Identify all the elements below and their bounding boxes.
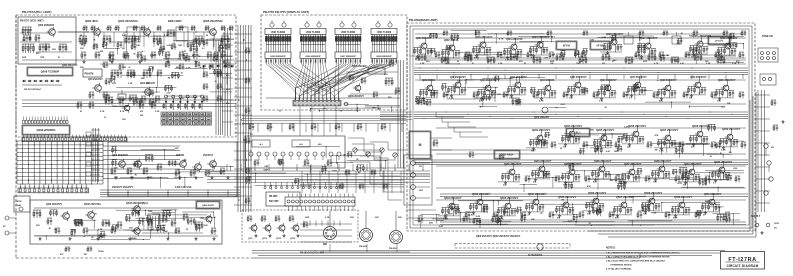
emitter drop wire QIII <box>458 90 460 95</box>
transistor Q701 <box>249 223 258 233</box>
hookup wires band <box>104 36 234 62</box>
bias network Q207 <box>658 140 666 147</box>
photo unit grounds <box>254 234 257 237</box>
collector wire QI06 <box>614 33 616 37</box>
svg-text:2.2K: 2.2K <box>490 91 495 93</box>
svg-text:Q2I4 2SC372Y: Q2I4 2SC372Y <box>534 159 552 163</box>
emitter drop wire Q2I9 <box>692 177 694 182</box>
diode matrix label grid <box>161 112 167 116</box>
IC pin fans U605 <box>265 45 291 65</box>
svg-text:Q606 2SC372Y: Q606 2SC372Y <box>348 96 365 98</box>
row C coils <box>551 142 556 149</box>
collector wire QI09 <box>728 37 730 41</box>
IC Q230 AN214 <box>494 150 520 159</box>
emitter drop wire Q506 <box>596 206 598 211</box>
collector wire Q503 <box>508 197 510 201</box>
IF crystal filter XF-10A <box>556 41 577 50</box>
row E coils <box>465 212 470 219</box>
bias network QI09 <box>718 48 726 55</box>
bottom bus step corner <box>639 253 641 258</box>
display collector bus <box>266 97 400 99</box>
row A long wires <box>415 34 746 58</box>
row A top caps <box>443 31 448 36</box>
transistor Q003 <box>141 27 150 38</box>
component clusters band <box>561 51 566 57</box>
row D long wires <box>436 165 746 167</box>
row C long wires <box>436 127 746 129</box>
interconnect junctions <box>243 39 244 40</box>
main bus band y160 <box>414 160 748 164</box>
IC pin fans U607 <box>335 45 361 65</box>
contact row upper <box>264 182 343 189</box>
counter IC U607 M5D823P <box>335 52 361 59</box>
svg-text:Q2I9 2SD235Y: Q2I9 2SD235Y <box>534 117 550 119</box>
emitter drop wire QI20 <box>726 93 728 98</box>
svg-text:47K: 47K <box>519 60 523 63</box>
bias network Q507 <box>614 207 622 214</box>
interconnect corridor stubs <box>234 33 252 35</box>
svg-text:FROM: FROM <box>16 201 22 203</box>
svg-text:33K: 33K <box>587 214 591 216</box>
left feed column strip <box>93 128 98 182</box>
svg-text:I5K: I5K <box>616 175 620 177</box>
svg-text:QI04 2SCI730: QI04 2SCI730 <box>506 37 523 41</box>
IF transformer T101 <box>624 36 633 44</box>
component clusters band <box>105 79 110 85</box>
svg-text:10K: 10K <box>178 45 182 47</box>
collector wire QI0I <box>424 37 426 41</box>
svg-text:QI0I 3SK40: QI0I 3SK40 <box>416 36 430 40</box>
collector wire QI07 <box>648 37 650 41</box>
svg-text:4.7K: 4.7K <box>661 88 666 91</box>
collector wire Q220 <box>722 161 724 165</box>
display right resistor banks <box>385 78 393 86</box>
connector strip display bottom <box>293 98 341 106</box>
PLL right vertical wires <box>216 40 223 135</box>
bias network QI20 <box>716 90 724 97</box>
jack PH right <box>764 144 768 148</box>
collector wire Q507 <box>624 196 626 200</box>
transistor Q702 <box>263 223 272 233</box>
control wiring matrix <box>16 140 103 184</box>
svg-text:0.I: 0.I <box>151 93 154 95</box>
switch sub-box A-1 <box>252 140 270 147</box>
wire VCO output <box>58 31 88 33</box>
title block box <box>721 252 765 270</box>
collector wire QII8 <box>668 79 670 83</box>
svg-text:4.7K: 4.7K <box>677 182 682 185</box>
right margin ground 1 <box>781 120 784 123</box>
emitter drop wire QII9 <box>698 90 700 95</box>
PLL top caps row <box>83 26 88 31</box>
svg-text:I5K: I5K <box>140 115 144 117</box>
bias network QII0 <box>420 90 428 97</box>
bottom interconnect bus wires <box>252 250 725 252</box>
collector wire Q505 <box>566 196 568 200</box>
hookup wires band <box>246 146 388 190</box>
svg-text:10K: 10K <box>643 214 647 216</box>
svg-text:10K: 10K <box>653 182 657 184</box>
svg-text:33K: 33K <box>80 48 84 50</box>
matrix-strip link wires <box>19 184 21 188</box>
emitter drop wire Q2I8 <box>662 174 664 179</box>
svg-text:I5K: I5K <box>201 218 205 220</box>
svg-text:.0I: .0I <box>193 169 196 171</box>
svg-text:2.2K: 2.2K <box>602 37 607 39</box>
bias networks Q301 Q302 <box>111 168 116 175</box>
svg-text:U604 TLR362: U604 TLR362 <box>377 31 392 34</box>
bottom bus risers with dots <box>107 190 109 197</box>
below jack panel wires <box>406 209 436 211</box>
svg-text:Q405 BUZ0: Q405 BUZ0 <box>202 204 214 207</box>
socket area extra wires <box>320 251 410 253</box>
svg-text:2SC372Y: 2SC372Y <box>203 154 214 157</box>
bias network Q50I <box>442 208 450 215</box>
bias network Q204 <box>562 136 570 143</box>
mixer T001 coil <box>167 30 175 37</box>
collector wire QII0 <box>430 79 432 83</box>
svg-text:2.2K: 2.2K <box>155 111 160 113</box>
hookup wires band <box>73 209 214 240</box>
hookup wires band <box>458 196 740 226</box>
svg-text:33K: 33K <box>204 225 208 227</box>
collector wire Q208 <box>700 125 702 129</box>
IC Q008 top pin strip <box>23 117 69 124</box>
emitter drop wire QII0 <box>430 93 432 98</box>
transistor Q303 <box>177 159 186 170</box>
svg-text:47K: 47K <box>418 101 422 104</box>
speaker connector <box>760 74 776 85</box>
bias network Q220 <box>712 172 720 179</box>
display driver IC U602 TLR362 <box>300 29 326 35</box>
svg-text:33K: 33K <box>36 225 40 227</box>
socket J401 MIC <box>324 227 337 240</box>
pots right of switch box <box>353 148 357 154</box>
row E long wires <box>436 199 746 201</box>
display driver IC U603 TLR362 <box>335 29 361 35</box>
svg-text:I5K: I5K <box>727 103 731 105</box>
svg-text:QI03 2SC372Y: QI03 2SC372Y <box>475 35 493 39</box>
svg-text:I5K: I5K <box>453 87 457 89</box>
svg-text:47K: 47K <box>226 88 230 91</box>
emitter drop wire Q2I3 <box>512 177 514 182</box>
collector wire QIII <box>458 76 460 80</box>
emitter drop wire QII5 <box>578 90 580 95</box>
collector wire Q2I5 <box>572 163 574 167</box>
bias network Q2I8 <box>652 171 660 178</box>
svg-text:0.I: 0.I <box>629 98 632 100</box>
emitter drop wire QI05 <box>540 50 542 55</box>
diode string D003-D009 <box>22 80 26 82</box>
svg-text:Q5I0 2SC372Y: Q5I0 2SC372Y <box>704 192 722 196</box>
AF interstage network <box>75 220 83 227</box>
emitter drop wire QI03 <box>483 50 485 55</box>
svg-text:10K: 10K <box>614 151 618 153</box>
svg-text:2.2K: 2.2K <box>220 47 225 49</box>
emitter drop wire Q5I0 <box>712 207 714 212</box>
svg-text:QI05 2SC372Y: QI05 2SC372Y <box>532 35 550 39</box>
transistor Q703 <box>277 223 286 233</box>
svg-text:I00P: I00P <box>673 218 678 220</box>
svg-text:3.3K: 3.3K <box>325 217 330 219</box>
svg-text:I00P: I00P <box>183 160 188 162</box>
svg-text:.0I: .0I <box>340 111 343 113</box>
svg-text:Q403 2SCI096(B)x2: Q403 2SCI096(B)x2 <box>126 202 148 205</box>
collector wire QI04 <box>514 38 516 42</box>
bias network Q5I0 <box>702 204 710 211</box>
emitter drop wire QII7 <box>638 90 640 95</box>
display driver IC U601 TLR362 <box>265 29 291 35</box>
feed column boxes <box>86 132 91 136</box>
svg-text:33K: 33K <box>717 101 721 103</box>
svg-text:10K: 10K <box>136 45 140 47</box>
svg-text:CIRCUIT DIAGRAM: CIRCUIT DIAGRAM <box>726 264 758 268</box>
svg-text:10K: 10K <box>108 55 112 57</box>
collector wire Q2I9 <box>692 163 694 167</box>
collector wire Q2I4 <box>542 160 544 164</box>
bias network Q504 <box>526 204 534 211</box>
svg-text:4.7K: 4.7K <box>499 37 504 40</box>
crisscross wiring to main unit <box>348 138 406 200</box>
svg-text:4.7K: 4.7K <box>539 100 544 103</box>
hookup wires band <box>120 149 234 188</box>
svg-text:I00P: I00P <box>305 217 310 219</box>
AF mid caps <box>55 228 60 234</box>
emitter drop wire QI07 <box>648 51 650 56</box>
svg-text:PH: PH <box>419 166 422 168</box>
audio sub-box border 3 <box>608 92 756 237</box>
RF top row collector bus <box>415 37 746 39</box>
emitter drop wire QI06 <box>614 47 616 52</box>
display bus fan wiring <box>266 64 396 100</box>
svg-text:10K: 10K <box>674 61 678 63</box>
collector wire Q206 <box>636 125 638 129</box>
svg-text:0I 2SA495Y/6: 0I 2SA495Y/6 <box>528 254 543 257</box>
PLL near-bus clusters <box>77 102 82 109</box>
collector wire QI20 <box>726 79 728 83</box>
transistor Q001 <box>46 27 55 38</box>
corridor diode row 2 <box>202 65 206 67</box>
display unit dashed box <box>261 15 407 110</box>
svg-text:IM: IM <box>168 78 171 80</box>
svg-text:Q0I2 2SC372Y: Q0I2 2SC372Y <box>140 83 156 85</box>
emitter drop wire QII8 <box>668 93 670 98</box>
middle interlink drops <box>245 123 247 132</box>
svg-text:Q50I 2SC372Y: Q50I 2SC372Y <box>444 196 462 200</box>
programmable divider diodes D010-D015 <box>165 95 168 98</box>
Q005 network <box>195 36 203 44</box>
jack right 4 <box>764 191 768 195</box>
svg-text:I00P: I00P <box>550 61 555 63</box>
Q012 emitter network <box>141 96 146 103</box>
svg-text:3.3K: 3.3K <box>589 40 594 42</box>
svg-text:Q40I 2SC372Y: Q40I 2SC372Y <box>46 203 62 206</box>
PLL band clusters y63-92 <box>165 62 170 68</box>
bias network Q209 <box>720 139 728 146</box>
svg-text:2.ALL CAPACITORS ARE IN µF UNL: 2.ALL CAPACITORS ARE IN µF UNLESS OTHERW… <box>606 256 671 259</box>
component clusters band <box>492 217 500 223</box>
right margin vertical wires <box>758 90 764 212</box>
meter box M501 <box>409 131 431 159</box>
svg-text:.0I: .0I <box>365 154 368 156</box>
svg-text:4.7K: 4.7K <box>332 169 337 172</box>
bias network Q206 <box>626 136 634 143</box>
svg-text:Q2I8 2SC372Y: Q2I8 2SC372Y <box>654 159 672 163</box>
svg-text:2.2K: 2.2K <box>718 53 723 55</box>
svg-text:XF-I0B: XF-I0B <box>596 46 604 48</box>
collector wire QI05 <box>540 36 542 40</box>
emitter drop wire Q207 <box>668 143 670 148</box>
photo unit extra wires <box>300 223 352 225</box>
svg-text:QI07 2SC372Y: QI07 2SC372Y <box>640 36 658 40</box>
svg-text:I00P: I00P <box>264 169 269 171</box>
bias network QI02 <box>442 50 450 57</box>
emitter resistors Q303-Q305 <box>175 170 180 177</box>
emitter drop wire Q509 <box>682 210 684 215</box>
audio sub-box border 2 <box>598 96 753 234</box>
interconnect corridor clusters <box>245 48 250 54</box>
svg-text:U608 M5D823P: U608 M5D823P <box>376 56 392 58</box>
collector wire Q5I0 <box>712 193 714 197</box>
AF input network <box>33 210 41 218</box>
bias network Q2I5 <box>562 174 570 181</box>
svg-text:47K: 47K <box>384 73 388 76</box>
AF grounds <box>38 237 41 240</box>
svg-text:PB-I756 PB-I755 (DISPLAY UN: PB-I756 PB-I755 (DISPLAY UNIT) <box>263 10 309 14</box>
hookup wires band <box>310 104 400 112</box>
meter shunt resistors <box>433 140 438 147</box>
svg-text:T40I: T40I <box>148 210 153 213</box>
display right extra wires <box>346 71 398 73</box>
wire PLL top row <box>58 31 210 33</box>
transistor Q606 <box>353 83 361 93</box>
IC Q009 TC5080P <box>27 67 73 76</box>
svg-text:Q605 2SC945: Q605 2SC945 <box>352 65 367 68</box>
collector wire QI03 <box>483 36 485 40</box>
electrolytic C601 <box>537 244 543 250</box>
collector wire Q506 <box>596 192 598 196</box>
row A lower cluster band <box>418 54 426 61</box>
svg-text:PB-I757 (VCO UNIT): PB-I757 (VCO UNIT) <box>20 20 44 23</box>
display lamp pair group 4 <box>376 21 392 28</box>
relay RL-1 <box>566 128 590 137</box>
svg-text:0.I: 0.I <box>552 36 555 38</box>
svg-text:33K: 33K <box>175 148 179 150</box>
resistor array RA601 <box>265 35 291 45</box>
bias network QI07 <box>638 48 646 55</box>
svg-text:2SC372Y 2SC372Y: 2SC372Y 2SC372Y <box>112 186 133 189</box>
below-box test points <box>65 247 70 252</box>
AF unit solid box <box>30 200 222 244</box>
transistor Q301 <box>116 159 125 170</box>
transistor Q013 <box>122 103 130 113</box>
svg-text:MIC: MIC <box>323 244 328 246</box>
svg-text:PB-I959(MAIN UNIT): PB-I959(MAIN UNIT) <box>409 18 438 22</box>
svg-text:10K: 10K <box>224 60 228 62</box>
bias network Q208 <box>690 136 698 143</box>
PLL coil boxes <box>127 27 140 42</box>
main unit dashed box <box>407 23 755 231</box>
svg-text:Q2I6 2SC372Y: Q2I6 2SC372Y <box>594 159 612 163</box>
collector wire Q204 <box>572 125 574 129</box>
svg-text:Q30I 2SC372Y: Q30I 2SC372Y <box>112 154 128 157</box>
middle interlink bus y118 <box>242 116 406 123</box>
svg-text:Q008 µPD858C: Q008 µPD858C <box>36 128 55 132</box>
svg-text:3.3K: 3.3K <box>150 55 155 57</box>
svg-text:Q2I7 2SC372Y: Q2I7 2SC372Y <box>624 162 642 166</box>
svg-text:XF-I0A: XF-I0A <box>563 45 571 48</box>
IC PB-1878 box <box>83 69 102 77</box>
svg-text:PH: PH <box>771 147 774 149</box>
svg-text:Q0I0 2SC372Y: Q0I0 2SC372Y <box>62 65 78 67</box>
svg-text:PB-I878: PB-I878 <box>85 73 94 76</box>
bias network Q2I7 <box>622 174 630 181</box>
output coupling network <box>162 216 167 223</box>
mid horizontal bus band <box>207 171 430 182</box>
svg-text:3.ALL ELECTROLYTIC CAPACITORS: 3.ALL ELECTROLYTIC CAPACITORS ARE IN µV … <box>606 260 665 263</box>
RF coils between stages row A <box>435 52 440 59</box>
resistor array RA602 <box>300 35 326 45</box>
svg-text:IM: IM <box>358 172 361 174</box>
svg-text:U607 M5D823P: U607 M5D823P <box>340 56 356 58</box>
resistor array RA604 <box>371 35 397 45</box>
row B long wires <box>415 79 746 81</box>
main bus band y68 <box>414 68 748 75</box>
svg-text:Q009 TC5080P: Q009 TC5080P <box>41 70 60 74</box>
switch box clusters <box>254 160 259 166</box>
bias network Q502 <box>470 204 478 211</box>
transistor Q404 <box>131 226 140 236</box>
emitter drop wire Q2I5 <box>572 177 574 182</box>
AF bottom bus wire <box>34 235 218 237</box>
emitter drop wire Q220 <box>722 175 724 180</box>
svg-text:IM: IM <box>596 177 599 179</box>
bias network QII6 <box>598 90 606 97</box>
Q011 bias <box>89 92 94 99</box>
strip lower stubs <box>288 206 290 211</box>
VCO unit solid box PB-1757 <box>18 17 76 64</box>
hookup wires band <box>419 77 724 108</box>
svg-text:TONE CB: TONE CB <box>762 35 773 38</box>
switch sub-box A-2 <box>292 140 310 147</box>
svg-text:I5K: I5K <box>106 223 110 225</box>
matrix right extension wires <box>103 146 180 178</box>
transistor Q302 <box>132 159 141 170</box>
IC pin fans U606 <box>300 45 326 65</box>
display right extra clusters <box>349 75 354 81</box>
emitter drop wire Q2I7 <box>632 177 634 182</box>
PLL right corridor extra wires <box>225 28 230 136</box>
svg-text:RL-I: RL-I <box>576 132 581 135</box>
bias network QII8 <box>658 90 666 97</box>
svg-text:IM: IM <box>714 204 717 206</box>
PLL mid bus wire <box>22 59 234 61</box>
collector wire Q203 <box>540 129 542 133</box>
interconnect wires right of display <box>398 60 403 168</box>
loop filter clusters <box>111 70 122 78</box>
svg-text:U601 TLR362: U601 TLR362 <box>271 32 286 34</box>
pilot lamp <box>344 102 348 106</box>
wire under diode string <box>22 84 62 86</box>
collector wire QII2 <box>488 79 490 83</box>
svg-text:3.3K: 3.3K <box>166 45 171 47</box>
svg-text:PB-I83I: PB-I83I <box>389 248 397 250</box>
svg-text:I00P: I00P <box>22 57 27 59</box>
connector strip PLL bottom long <box>22 135 127 142</box>
emitter drop wire Q206 <box>636 139 638 144</box>
row B coils <box>443 92 448 99</box>
svg-text:IM: IM <box>378 109 381 111</box>
